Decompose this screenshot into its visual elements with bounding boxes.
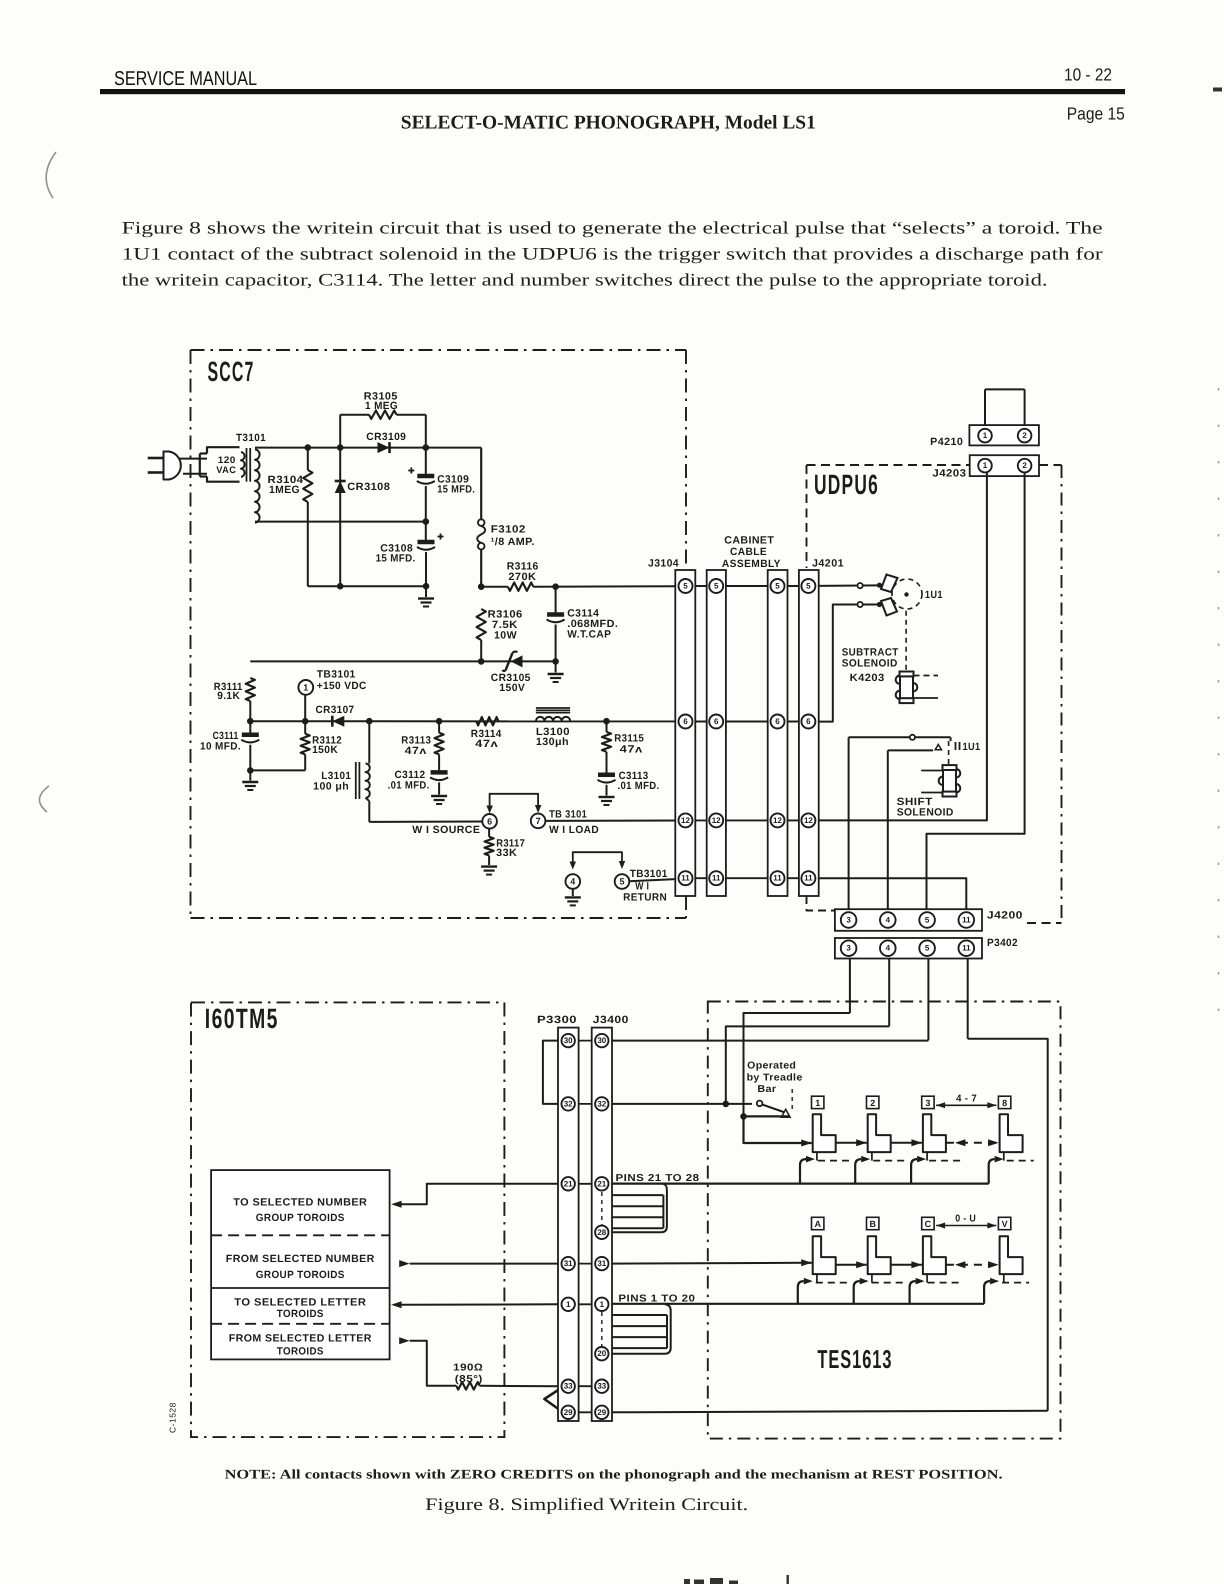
svg-text:47ʌ: 47ʌ — [405, 745, 427, 757]
svg-text:150V: 150V — [499, 682, 525, 694]
svg-text:V: V — [1002, 1219, 1008, 1229]
svg-text:10 MFD.: 10 MFD. — [200, 740, 241, 752]
svg-text:1U1: 1U1 — [925, 589, 943, 601]
svg-text:10 - 22: 10 - 22 — [1064, 65, 1112, 85]
svg-text:TO SELECTED LETTER: TO SELECTED LETTER — [234, 1297, 366, 1309]
svg-text:C-1528: C-1528 — [168, 1402, 178, 1433]
svg-text:21: 21 — [597, 1179, 606, 1188]
svg-text:TB 3101: TB 3101 — [549, 809, 587, 821]
svg-text:FROM SELECTED LETTER: FROM SELECTED LETTER — [229, 1333, 372, 1345]
svg-text:C: C — [925, 1219, 932, 1229]
svg-text:31: 31 — [564, 1259, 573, 1268]
svg-text:GROUP TOROIDS: GROUP TOROIDS — [256, 1269, 345, 1281]
svg-text:150K: 150K — [312, 744, 338, 756]
svg-text:5: 5 — [714, 582, 719, 591]
svg-text:6: 6 — [775, 717, 780, 726]
svg-text:2: 2 — [1022, 461, 1027, 470]
svg-text:33: 33 — [564, 1382, 573, 1391]
svg-text:TOROIDS: TOROIDS — [277, 1345, 324, 1357]
svg-text:32: 32 — [597, 1099, 606, 1108]
svg-text:0 - U: 0 - U — [955, 1214, 976, 1225]
svg-text:.01 MFD.: .01 MFD. — [388, 779, 430, 791]
svg-text:CABINET: CABINET — [724, 535, 774, 547]
svg-text:1MEG: 1MEG — [269, 484, 300, 496]
svg-text:¹/8 AMP.: ¹/8 AMP. — [491, 536, 535, 548]
svg-text:270K: 270K — [508, 571, 536, 583]
svg-text:SUBTRACT: SUBTRACT — [842, 646, 899, 658]
svg-text:12: 12 — [712, 816, 721, 825]
svg-text:SELECT-O-MATIC PHONOGRAPH, Mod: SELECT-O-MATIC PHONOGRAPH, Model LS1 — [401, 113, 816, 134]
svg-text:1U1 contact of the subtract so: 1U1 contact of the subtract solenoid in … — [122, 244, 1103, 264]
svg-text:15 MFD.: 15 MFD. — [437, 483, 475, 495]
svg-text:12: 12 — [804, 816, 813, 825]
svg-text:21: 21 — [564, 1179, 573, 1188]
svg-text:1: 1 — [983, 461, 988, 470]
svg-text:29: 29 — [564, 1408, 573, 1417]
svg-text:190Ω: 190Ω — [453, 1363, 483, 1374]
svg-text:8: 8 — [1002, 1098, 1007, 1108]
svg-text:A: A — [814, 1219, 821, 1229]
svg-text:RETURN: RETURN — [623, 891, 667, 903]
svg-text:W.T.CAP: W.T.CAP — [567, 629, 611, 641]
svg-text:CABLE: CABLE — [730, 546, 767, 558]
svg-text:SOLENOID: SOLENOID — [897, 807, 954, 819]
svg-text:5: 5 — [683, 582, 688, 591]
svg-text:GROUP TOROIDS: GROUP TOROIDS — [256, 1212, 345, 1224]
svg-text:29: 29 — [597, 1408, 606, 1417]
svg-text:J3400: J3400 — [593, 1014, 629, 1026]
svg-text:1: 1 — [815, 1098, 820, 1108]
svg-text:UDPU6: UDPU6 — [814, 469, 879, 500]
svg-text:47ʌ: 47ʌ — [475, 738, 498, 750]
svg-text:SCC7: SCC7 — [208, 356, 255, 387]
svg-text:1: 1 — [303, 682, 308, 692]
svg-text:.01 MFD.: .01 MFD. — [618, 780, 660, 792]
svg-text:4 - 7: 4 - 7 — [956, 1094, 977, 1105]
svg-text:CR3108: CR3108 — [347, 481, 390, 493]
svg-text:9.1K: 9.1K — [217, 690, 240, 702]
svg-text:3: 3 — [846, 916, 851, 925]
svg-text:J3104: J3104 — [648, 558, 679, 570]
svg-text:32: 32 — [564, 1099, 573, 1108]
svg-text:4: 4 — [886, 944, 891, 953]
svg-text:11: 11 — [962, 944, 971, 953]
svg-text:+150 VDC: +150 VDC — [317, 680, 367, 692]
svg-text:3: 3 — [925, 1098, 930, 1108]
svg-text:11: 11 — [804, 874, 813, 883]
svg-text:11: 11 — [962, 916, 971, 925]
svg-text:47ʌ: 47ʌ — [620, 744, 643, 756]
svg-text:6: 6 — [683, 717, 688, 726]
svg-text:1: 1 — [566, 1300, 571, 1309]
svg-text:5: 5 — [775, 582, 780, 591]
svg-text:NOTE: All contacts shown with: NOTE: All contacts shown with ZERO CREDI… — [225, 1467, 1003, 1482]
svg-text:Bar: Bar — [757, 1084, 776, 1095]
svg-text:Operated: Operated — [747, 1061, 796, 1072]
svg-text:5: 5 — [806, 582, 811, 591]
svg-text:W I LOAD: W I LOAD — [549, 824, 599, 836]
svg-text:11: 11 — [681, 874, 690, 883]
svg-text:28: 28 — [597, 1228, 606, 1237]
svg-text:33K: 33K — [496, 847, 517, 859]
svg-text:2: 2 — [1022, 431, 1027, 440]
svg-text:ASSEMBLY: ASSEMBLY — [722, 558, 781, 570]
svg-text:30: 30 — [564, 1036, 573, 1045]
svg-text:4: 4 — [886, 916, 891, 925]
svg-text:Figure 8. Simplified Writein: Figure 8. Simplified Writein Circuit. — [425, 1494, 748, 1514]
svg-text:W I SOURCE: W I SOURCE — [412, 824, 480, 836]
svg-text:J4203: J4203 — [932, 467, 966, 479]
svg-text:P4210: P4210 — [930, 436, 963, 448]
svg-text:11: 11 — [773, 874, 782, 883]
svg-text:31: 31 — [597, 1259, 606, 1268]
svg-text:I60TM5: I60TM5 — [205, 1003, 279, 1034]
svg-text:4: 4 — [570, 877, 575, 887]
svg-text:1U1: 1U1 — [963, 741, 981, 753]
svg-text:TB3101: TB3101 — [317, 668, 356, 680]
svg-text:Figure 8 shows the writein cir: Figure 8 shows the writein circuit that … — [122, 218, 1103, 238]
svg-text:7: 7 — [536, 816, 541, 826]
svg-text:F3102: F3102 — [491, 524, 526, 536]
svg-text:100 μh: 100 μh — [313, 781, 349, 793]
svg-text:P3402: P3402 — [987, 937, 1018, 949]
svg-text:1 MEG: 1 MEG — [365, 400, 398, 412]
svg-text:PINS 21 TO 28: PINS 21 TO 28 — [616, 1173, 700, 1184]
svg-text:3: 3 — [846, 944, 851, 953]
svg-text:20: 20 — [597, 1349, 606, 1358]
svg-text:J4201: J4201 — [812, 557, 844, 569]
svg-text:Page 15: Page 15 — [1067, 104, 1125, 124]
svg-text:SOLENOID: SOLENOID — [842, 658, 898, 670]
svg-text:1: 1 — [983, 431, 988, 440]
svg-text:10W: 10W — [494, 630, 517, 642]
svg-text:2: 2 — [870, 1098, 875, 1108]
svg-text:6: 6 — [806, 717, 811, 726]
svg-text:5: 5 — [619, 877, 624, 887]
svg-text:(85°): (85°) — [455, 1374, 483, 1385]
svg-text:33: 33 — [597, 1382, 606, 1391]
svg-text:12: 12 — [681, 816, 690, 825]
svg-text:5: 5 — [925, 944, 930, 953]
svg-text:15 MFD.: 15 MFD. — [376, 552, 416, 564]
svg-text:TOROIDS: TOROIDS — [277, 1308, 324, 1320]
svg-text:6: 6 — [714, 717, 719, 726]
svg-text:CR3109: CR3109 — [366, 431, 406, 443]
svg-text:12: 12 — [773, 816, 782, 825]
svg-text:1: 1 — [600, 1300, 605, 1309]
svg-text:T3101: T3101 — [236, 432, 266, 444]
svg-text:P3300: P3300 — [537, 1014, 577, 1026]
svg-text:CR3107: CR3107 — [316, 704, 355, 716]
svg-text:FROM SELECTED NUMBER: FROM SELECTED NUMBER — [226, 1253, 375, 1265]
svg-text:6: 6 — [487, 816, 492, 826]
svg-text:TB3101: TB3101 — [630, 868, 668, 880]
svg-text:J4200: J4200 — [987, 910, 1023, 922]
svg-text:5: 5 — [925, 916, 930, 925]
svg-text:11: 11 — [712, 874, 721, 883]
svg-text:130μh: 130μh — [536, 736, 569, 748]
svg-text:VAC: VAC — [216, 465, 236, 476]
svg-text:TO SELECTED NUMBER: TO SELECTED NUMBER — [233, 1196, 367, 1208]
svg-text:the writein capacitor, C3114.: the writein capacitor, C3114. The letter… — [122, 270, 1048, 290]
svg-text:B: B — [869, 1219, 876, 1229]
svg-text:TES1613: TES1613 — [817, 1344, 892, 1374]
svg-text:by Treadle: by Treadle — [747, 1072, 803, 1083]
svg-text:30: 30 — [597, 1036, 606, 1045]
svg-text:K4203: K4203 — [850, 672, 885, 684]
svg-text:SERVICE MANUAL: SERVICE MANUAL — [114, 68, 257, 90]
